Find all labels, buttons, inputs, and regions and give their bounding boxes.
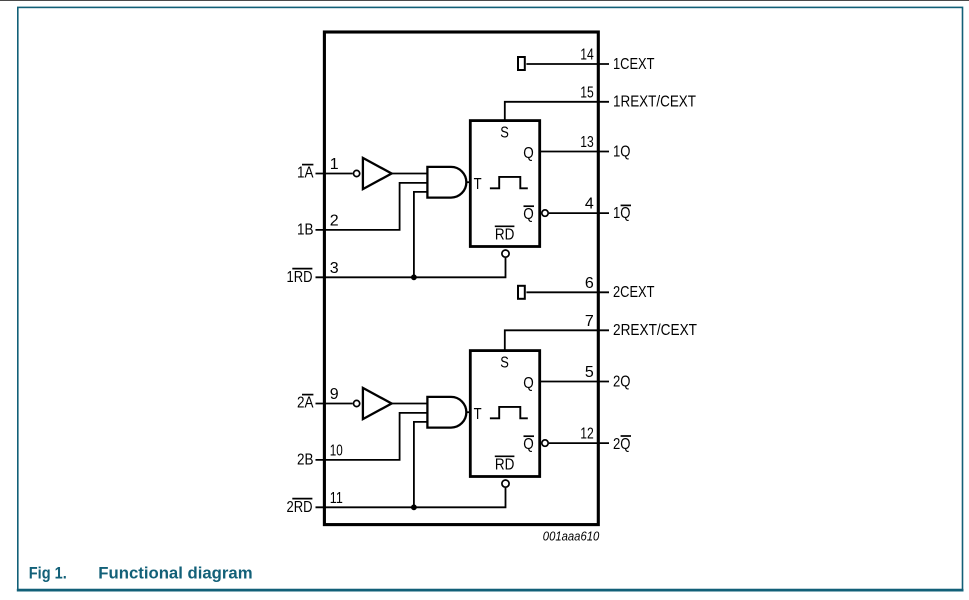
wire input 2A [316, 403, 353, 405]
svg-text:Fig 1.: Fig 1. [29, 564, 67, 582]
svg-text:2RD: 2RD [287, 499, 313, 516]
svg-text:Q: Q [523, 375, 534, 392]
svg-text:1Q: 1Q [613, 205, 631, 222]
svg-text:13: 13 [580, 134, 594, 151]
wire input 1A [316, 173, 353, 175]
junction node 2RD [411, 504, 417, 510]
inverter U2A bubble [354, 400, 360, 406]
svg-text:1Q: 1Q [613, 143, 631, 160]
svg-text:001aaa610: 001aaa610 [543, 529, 600, 543]
svg-text:Q: Q [523, 145, 534, 162]
capacitor pin symbol 1CEXT [518, 57, 525, 70]
svg-text:9: 9 [330, 386, 339, 403]
wire pin 5 [541, 381, 610, 383]
wire pin 4 [549, 212, 609, 214]
svg-text:2A: 2A [297, 395, 314, 412]
pulse waveform symbol [490, 177, 528, 188]
svg-text:2Q: 2Q [613, 373, 631, 390]
wire pin 6 [526, 291, 609, 293]
pin label RD 2 [495, 456, 515, 473]
wire input 1B [316, 183, 429, 230]
inverter U1A triangle [363, 158, 392, 189]
svg-text:T: T [474, 176, 482, 193]
svg-text:1REXT/CEXT: 1REXT/CEXT [613, 94, 696, 111]
wire inverter to AND [392, 173, 428, 175]
net label 2A [297, 395, 314, 412]
AND gate U1B [427, 167, 466, 198]
svg-text:4: 4 [585, 196, 594, 213]
svg-text:5: 5 [585, 364, 594, 381]
svg-text:T: T [474, 406, 482, 423]
svg-text:7: 7 [585, 313, 594, 330]
inverter U1A bubble [354, 170, 360, 176]
net label 1A [297, 165, 314, 182]
pin label Q-bar [523, 206, 534, 223]
wire pin 14 [526, 63, 609, 65]
capacitor pin symbol 2CEXT [518, 286, 525, 299]
svg-text:S: S [500, 355, 509, 372]
svg-text:12: 12 [580, 426, 594, 443]
svg-text:RD: RD [495, 456, 515, 473]
svg-text:1B: 1B [297, 221, 314, 238]
IC boundary box [324, 32, 598, 525]
wire pin 13 [541, 151, 610, 153]
AND gate U2B [427, 397, 466, 428]
wire pin 15 [505, 102, 609, 122]
svg-text:14: 14 [580, 47, 594, 64]
svg-text:3: 3 [330, 260, 339, 277]
svg-text:Functional diagram: Functional diagram [98, 564, 252, 582]
svg-text:11: 11 [330, 490, 343, 507]
svg-text:1CEXT: 1CEXT [613, 56, 655, 73]
net label 2Q-bar [613, 436, 631, 453]
svg-text:10: 10 [330, 442, 343, 459]
monostable block U1 [470, 121, 539, 247]
wire input 2RD [316, 488, 506, 507]
pulse waveform symbol 2 [490, 407, 528, 418]
svg-text:1RD: 1RD [287, 269, 313, 286]
svg-text:2Q: 2Q [613, 436, 631, 453]
svg-text:2B: 2B [297, 451, 314, 468]
wire 1RD branch to AND [414, 192, 428, 277]
net label 2RD [287, 499, 313, 516]
net label 1RD [287, 269, 313, 286]
wire pin 7 [505, 330, 609, 351]
wire pin 12 [549, 442, 609, 444]
svg-text:1A: 1A [297, 165, 314, 182]
wire AND to T input [466, 181, 471, 183]
pin label Q-bar 2 [523, 436, 534, 453]
wire AND to T input 2 [466, 411, 471, 413]
wire inverter to AND 2 [392, 403, 428, 405]
reset bubble U2 [502, 480, 509, 487]
wire 2RD branch to AND [414, 422, 428, 507]
monostable block U2 [470, 351, 539, 477]
output bubble Q-bar U2 [542, 440, 548, 446]
svg-text:2REXT/CEXT: 2REXT/CEXT [613, 322, 697, 339]
svg-text:6: 6 [585, 275, 594, 292]
svg-text:S: S [500, 125, 509, 142]
svg-text:Q: Q [523, 206, 534, 223]
svg-text:Q: Q [523, 436, 534, 453]
wire input 2B [316, 413, 429, 460]
svg-text:2: 2 [330, 212, 339, 229]
inverter U2A triangle [363, 388, 392, 419]
svg-text:2CEXT: 2CEXT [613, 284, 655, 301]
output bubble Q-bar U1 [542, 210, 548, 216]
net label 1Q-bar [613, 205, 631, 222]
junction node 1RD [411, 274, 417, 280]
pin label RD [495, 226, 515, 243]
svg-text:15: 15 [580, 84, 594, 101]
wire input 1RD [316, 258, 506, 277]
svg-text:RD: RD [495, 226, 515, 243]
reset bubble U1 [502, 250, 509, 257]
svg-text:1: 1 [330, 156, 339, 173]
